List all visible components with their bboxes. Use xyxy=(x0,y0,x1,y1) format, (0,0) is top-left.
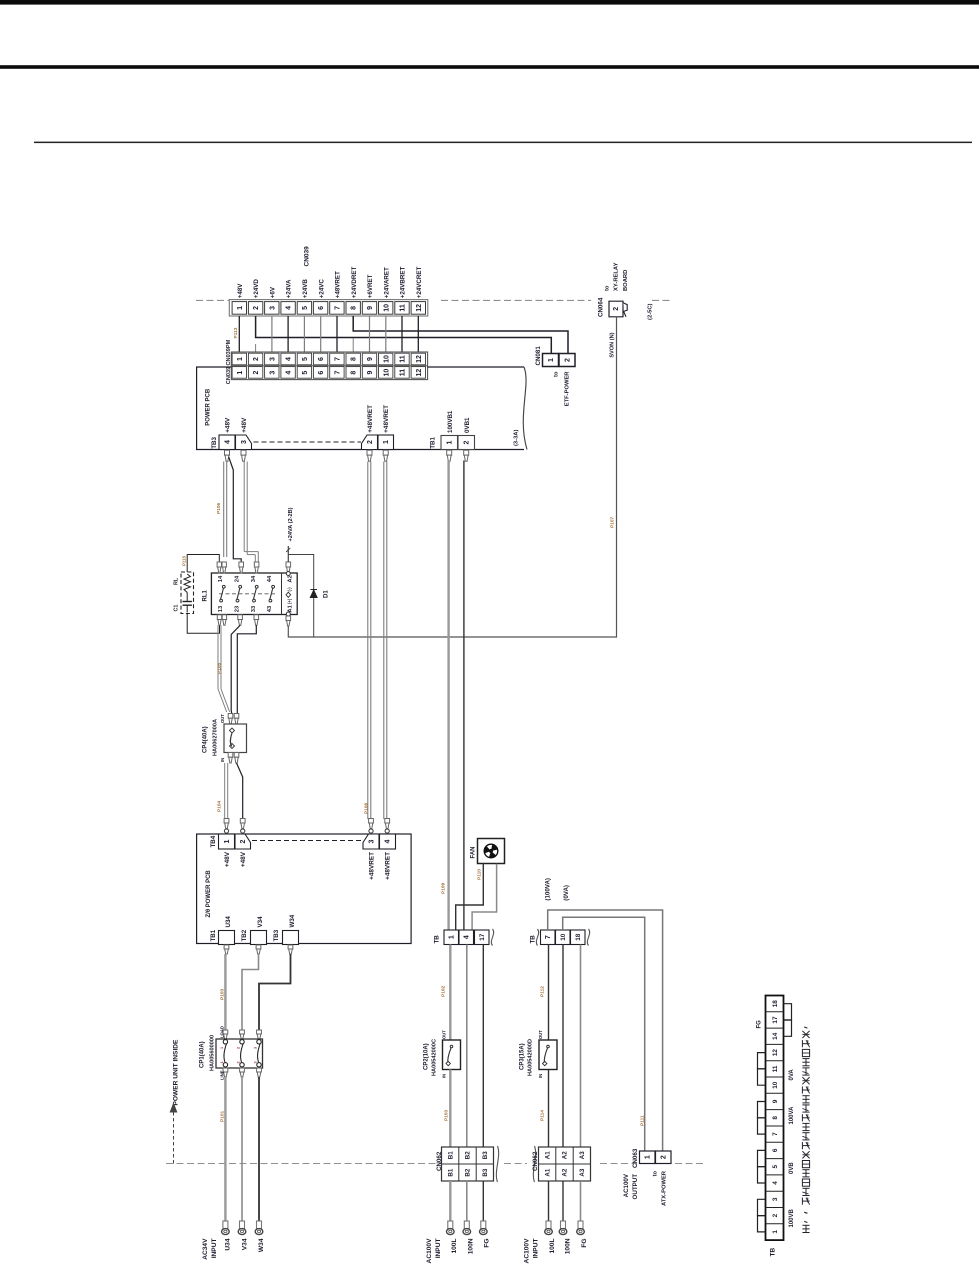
svg-text:+48V: +48V xyxy=(237,283,244,298)
svg-text:INPUT: INPUT xyxy=(533,1239,540,1259)
svg-text:HA00542000D: HA00542000D xyxy=(528,1039,534,1076)
svg-text:10: 10 xyxy=(560,933,567,941)
connector CN039 pin 8 cell xyxy=(346,367,360,379)
svg-text:24: 24 xyxy=(234,575,240,582)
svg-text:V34: V34 xyxy=(257,916,264,928)
svg-text:POWER PCB: POWER PCB xyxy=(206,388,212,426)
svg-text:AC100V: AC100V xyxy=(426,1238,433,1264)
wire RL1-33 to CP4 (black) xyxy=(237,625,256,714)
wire W34 CP1 to input terminal xyxy=(258,1077,260,1221)
wire 0VB1 TB1-2 to TB cell 4 xyxy=(463,461,465,931)
svg-text:OUT: OUT xyxy=(220,714,225,723)
TB strip jumper 2-1 (left) xyxy=(758,1216,766,1232)
svg-text:(-): (-) xyxy=(287,587,292,592)
connector CN39 pin cells 1-12 xyxy=(232,302,246,315)
wire 100N TB-4 to CN062 B2 xyxy=(466,945,468,1148)
wire FG CN062-A3 to ring terminal xyxy=(580,1181,582,1221)
svg-text:100VB: 100VB xyxy=(789,1208,795,1227)
svg-text:1: 1 xyxy=(224,839,231,843)
page rule: header bottom bar xyxy=(0,65,979,69)
svg-text:1: 1 xyxy=(237,371,244,375)
svg-text:TB: TB xyxy=(770,1248,777,1257)
connector CN081 cells 1,2 xyxy=(543,354,559,367)
breaker CP1 stubs bottom xyxy=(223,1068,228,1072)
svg-text:33: 33 xyxy=(251,605,257,612)
svg-text:12: 12 xyxy=(772,1049,779,1057)
svg-text:BOARD: BOARD xyxy=(623,270,629,291)
ring terminal FG (A) xyxy=(578,1221,583,1229)
svg-text:2: 2 xyxy=(240,839,247,843)
svg-text:6: 6 xyxy=(318,306,325,310)
breaker CP1 pole circles and blades xyxy=(223,1040,227,1044)
TB strip jumper 6-5 (left) xyxy=(758,1150,766,1166)
svg-text:ETF-POWER: ETF-POWER xyxy=(565,371,571,407)
svg-text:3: 3 xyxy=(253,1047,257,1049)
svg-text:CN062: CN062 xyxy=(436,1151,443,1171)
relay stub pin 13 (double) xyxy=(217,615,221,620)
relay stub pin 24 xyxy=(239,562,244,567)
svg-text:1: 1 xyxy=(220,1061,224,1063)
svg-text:+48VRET: +48VRET xyxy=(335,271,342,298)
svg-text:+48VRET: +48VRET xyxy=(385,852,392,880)
relay coil section divider xyxy=(281,573,283,615)
terminal TB3-2 cell (notched) xyxy=(362,435,378,450)
svg-text:+48V: +48V xyxy=(225,417,232,433)
svg-text:1: 1 xyxy=(383,440,390,444)
connector CN039PM/CN039 double row outer box xyxy=(231,352,427,380)
wire U34 Z/0-TB1 to CP1 xyxy=(224,954,226,1031)
svg-text:CP1(40A): CP1(40A) xyxy=(200,1041,206,1068)
POWER PCB board outline xyxy=(197,367,524,450)
svg-text:A2: A2 xyxy=(562,1151,569,1159)
wire branch TB3-4 to RL1 contact 24 (black) xyxy=(229,457,242,562)
svg-text:(0VA): (0VA) xyxy=(563,885,570,901)
svg-text:FG: FG xyxy=(483,1239,490,1248)
connector CN039PM pin 3 cell xyxy=(265,353,279,365)
svg-text:TB1: TB1 xyxy=(430,437,437,449)
wire CN39.7 to CN039PM.7 xyxy=(336,316,338,352)
svg-text:TB2: TB2 xyxy=(241,929,248,941)
snubber top lead to contact 14 xyxy=(187,555,219,573)
connector CN039 pin 12 cell xyxy=(411,367,425,379)
breaker CP3 switch symbol xyxy=(547,1045,550,1048)
svg-text:9: 9 xyxy=(772,1099,779,1103)
wire pair +48VRET TB3-2 to TB4-3 xyxy=(367,462,369,820)
connector CN039PM pin 8 cell xyxy=(346,353,360,365)
relay stub pin 34 xyxy=(254,562,259,567)
svg-text:FG: FG xyxy=(581,1239,588,1248)
wire 100L CN062-A1 to ring terminal xyxy=(548,1181,550,1221)
wire 100N TB-10 down to CN062 A2 xyxy=(562,945,564,1148)
relay stub coil A2 xyxy=(286,562,291,567)
wire +24VA to relay coil A2 xyxy=(287,546,289,562)
svg-text:+48V: +48V xyxy=(224,851,231,867)
wire RL1-23 to CP4 (black) xyxy=(231,625,240,714)
svg-text:0VB1: 0VB1 xyxy=(464,417,471,433)
screw circles TB4 and crimp stubs xyxy=(224,819,229,824)
svg-text:2: 2 xyxy=(772,1213,779,1217)
connector CN039 pin 1 cell xyxy=(232,367,246,379)
unit-boundary dashed line (top, y=300) xyxy=(196,299,229,301)
diode D1 flyback loop xyxy=(288,555,313,638)
wire CN39.4 to CN039PM.4 xyxy=(287,316,289,352)
ring terminal FG (B) xyxy=(481,1221,486,1229)
terminal TB4-3 cell (notched) xyxy=(363,834,379,849)
svg-text:100L: 100L xyxy=(549,1239,556,1254)
svg-text:6: 6 xyxy=(318,357,325,361)
svg-text:1: 1 xyxy=(449,935,456,939)
connector CN039 pin 11 cell xyxy=(395,367,409,379)
svg-text:+24VB: +24VB xyxy=(302,279,309,299)
terminal block TB strip outer box xyxy=(766,996,784,1241)
svg-text:A2: A2 xyxy=(562,1168,569,1176)
svg-text:100VB1: 100VB1 xyxy=(447,410,454,433)
svg-text:2: 2 xyxy=(236,1047,240,1049)
connector CN039PM pin 12 cell xyxy=(411,353,425,365)
svg-text:+24VCRET: +24VCRET xyxy=(416,267,423,299)
svg-text:4: 4 xyxy=(464,935,471,939)
svg-text:5: 5 xyxy=(302,357,309,361)
connector CN039 pin 5 cell xyxy=(297,367,311,379)
svg-text:P104: P104 xyxy=(217,800,223,812)
terminal TB1/U34 cell xyxy=(219,931,235,945)
svg-text:TB3: TB3 xyxy=(211,437,218,449)
ring terminal 100N (A) xyxy=(561,1221,566,1229)
svg-text:IN: IN xyxy=(442,1074,447,1078)
svg-text:12: 12 xyxy=(416,369,423,377)
svg-text:2: 2 xyxy=(253,371,260,375)
svg-text:IN: IN xyxy=(538,1074,543,1078)
svg-text:CP4(40A): CP4(40A) xyxy=(203,726,209,753)
wire 100L CP3 to CN062 A1 xyxy=(548,1070,550,1148)
svg-text:CN064: CN064 xyxy=(598,297,605,317)
svg-text:P108: P108 xyxy=(364,802,370,814)
TB strip jumper 12-11 (left) xyxy=(758,1053,766,1069)
svg-text:13: 13 xyxy=(218,605,224,612)
svg-text:+6VRET: +6VRET xyxy=(367,274,374,298)
svg-text:18: 18 xyxy=(772,1000,779,1008)
svg-text:14: 14 xyxy=(218,575,224,582)
svg-text:6: 6 xyxy=(772,1148,779,1152)
wire 100L TB-7 down to CP3 xyxy=(548,945,550,1041)
svg-text:3: 3 xyxy=(269,357,276,361)
FAN rotor symbol xyxy=(484,844,498,858)
wire CN39.12 to CN039PM.12 xyxy=(417,316,419,352)
svg-text:to: to xyxy=(653,1171,659,1177)
svg-text:0VB: 0VB xyxy=(789,1162,795,1174)
wire crimp stub below U34 terminal xyxy=(224,945,229,949)
wire CN39.10 to CN039PM.10 xyxy=(385,316,387,352)
breaker CP2 switch symbol xyxy=(450,1045,453,1048)
wire CN39.11 to CN039PM.11 xyxy=(401,316,403,352)
connector CN062 (B) break squiggle xyxy=(496,1146,498,1182)
svg-text:+48V: +48V xyxy=(240,851,247,867)
svg-text:1: 1 xyxy=(548,358,555,362)
svg-text:HA00542000C: HA00542000C xyxy=(432,1039,438,1076)
svg-text:CN039PM: CN039PM xyxy=(226,339,232,365)
svg-text:P101: P101 xyxy=(220,1110,226,1122)
terminal TB4-4 cell xyxy=(380,834,396,849)
wire FG CN062-B3 to ring terminal xyxy=(482,1181,484,1221)
svg-text:1: 1 xyxy=(220,1047,224,1049)
capacitor C1 plates xyxy=(186,593,188,602)
wire 100VB1 TB1-1 to TB cell 1 xyxy=(447,461,449,931)
connector CN039PM pin 6 cell xyxy=(313,353,327,365)
svg-text:A3: A3 xyxy=(579,1168,586,1176)
svg-text:SVON (N): SVON (N) xyxy=(610,332,616,357)
svg-text:9: 9 xyxy=(367,371,374,375)
svg-text:B1: B1 xyxy=(447,1151,454,1159)
snubber dashed enclosure xyxy=(181,572,194,614)
svg-text:P115: P115 xyxy=(182,555,187,566)
svg-text:B3: B3 xyxy=(482,1168,489,1176)
TB strip jumper 5-4 (left) xyxy=(758,1167,766,1183)
wire 100N CN062-B2 to ring terminal xyxy=(466,1181,468,1221)
wire V34 CP1 to input terminal xyxy=(241,1077,243,1221)
svg-text:9: 9 xyxy=(367,306,374,310)
svg-text:7: 7 xyxy=(335,371,342,375)
svg-text:4: 4 xyxy=(225,440,232,444)
svg-text:7: 7 xyxy=(335,306,342,310)
connector CN063 cells 1,2 xyxy=(640,1151,656,1164)
svg-text:U34: U34 xyxy=(225,1238,232,1250)
svg-text:5: 5 xyxy=(302,371,309,375)
svg-text:CN063: CN063 xyxy=(632,1148,639,1168)
svg-text:4: 4 xyxy=(772,1181,779,1185)
svg-text:7: 7 xyxy=(335,357,342,361)
svg-text:2: 2 xyxy=(253,306,260,310)
terminal TB1-1 cell xyxy=(441,436,458,450)
relay RL1 body xyxy=(211,573,297,615)
svg-text:2: 2 xyxy=(613,307,620,311)
TB break squiggle (right of 18) xyxy=(587,929,589,946)
svg-text:17: 17 xyxy=(772,1016,779,1024)
note: jumper connections of terminal block TB (Japanese, drawn as strokes) xyxy=(802,1224,809,1226)
svg-text:CN039: CN039 xyxy=(226,367,232,384)
terminal TB3-3 cell (notched) xyxy=(236,435,252,450)
svg-text:FG: FG xyxy=(757,1020,763,1029)
svg-text:4: 4 xyxy=(286,357,293,361)
breaker CP2 body xyxy=(443,1040,461,1070)
connector CN039PM pin 10 cell xyxy=(379,353,393,365)
svg-text:100N: 100N xyxy=(467,1238,474,1254)
svg-text:(100VA): (100VA) xyxy=(545,878,552,901)
svg-text:43: 43 xyxy=(267,605,273,612)
connector CN062 (A) break squiggle xyxy=(533,1146,535,1182)
connector CN039PM pin 9 cell xyxy=(362,353,376,365)
svg-text:18: 18 xyxy=(575,933,582,941)
ring terminal V34 xyxy=(240,1221,245,1229)
connector CN039PM pin 5 cell xyxy=(297,353,311,365)
svg-text:2: 2 xyxy=(464,440,471,444)
terminal TB3-4 cell xyxy=(219,435,235,450)
svg-text:(3-3A): (3-3A) xyxy=(514,430,520,446)
svg-text:10: 10 xyxy=(383,369,390,377)
TB strip jumper 3-2 (left) xyxy=(758,1199,766,1215)
wire CP4 to TB4-2 (black) xyxy=(237,763,243,819)
connector CN39 outer box xyxy=(229,300,427,316)
relay stub coil A1 xyxy=(286,612,290,616)
svg-text:P103: P103 xyxy=(220,988,226,1000)
svg-text:0VA: 0VA xyxy=(789,1069,795,1081)
svg-text:3: 3 xyxy=(269,371,276,375)
svg-text:10: 10 xyxy=(383,304,390,312)
resistor RL (zigzag) xyxy=(184,574,190,593)
svg-text:7: 7 xyxy=(545,935,552,939)
svg-text:11: 11 xyxy=(400,369,407,377)
svg-text:+48V: +48V xyxy=(241,417,248,433)
svg-text:P114: P114 xyxy=(540,1110,546,1121)
wire crimp stub below TB1-1 xyxy=(447,450,452,455)
svg-text:11: 11 xyxy=(772,1065,779,1072)
connector CN039PM pin 7 cell xyxy=(330,353,344,365)
svg-text:2: 2 xyxy=(253,357,260,361)
svg-text:P112: P112 xyxy=(540,986,546,997)
terminal TB3/W34 cell xyxy=(283,931,299,945)
svg-text:7: 7 xyxy=(772,1132,779,1136)
svg-text:CN062: CN062 xyxy=(532,1151,539,1171)
breaker CP4 stub bottom-right xyxy=(234,753,239,758)
snubber bottom lead to contact 13 xyxy=(187,614,219,634)
svg-text:+48VRET: +48VRET xyxy=(383,405,390,433)
svg-text:AC100V: AC100V xyxy=(524,1238,531,1264)
ring terminal W34 xyxy=(257,1221,262,1229)
svg-text:+24VC: +24VC xyxy=(318,279,325,299)
svg-text:POWER UNIT INSIDE: POWER UNIT INSIDE xyxy=(173,1039,180,1106)
svg-text:+48VRET: +48VRET xyxy=(367,405,374,433)
svg-text:3: 3 xyxy=(241,440,248,444)
terminal TB1-2 cell xyxy=(458,436,475,450)
svg-text:RL: RL xyxy=(174,577,180,585)
breaker CP4 stub bottom-left xyxy=(228,753,233,758)
svg-text:8: 8 xyxy=(351,357,358,361)
svg-text:B3: B3 xyxy=(482,1151,489,1159)
wire 100VA TB-7 to CN063.2 xyxy=(548,910,663,1151)
svg-text:to: to xyxy=(605,285,611,291)
svg-text:44: 44 xyxy=(267,575,273,582)
svg-text:+24VARET: +24VARET xyxy=(383,267,390,298)
connector CN039 pin 3 cell xyxy=(265,367,279,379)
breaker CP4 switch symbol xyxy=(230,728,235,733)
breaker CP3 body xyxy=(539,1040,557,1070)
svg-text:OUT: OUT xyxy=(538,1030,543,1039)
svg-text:10: 10 xyxy=(383,355,390,363)
jumper dashed link TB4 2-3 xyxy=(252,840,363,842)
connector CN039 pin 2 cell xyxy=(248,367,262,379)
svg-text:+48VRET: +48VRET xyxy=(369,852,376,880)
wire crimp stub below TB3-3 xyxy=(241,450,246,455)
wire FG TB-17 to CN062 B3 xyxy=(482,945,484,1148)
wire pair CP4 to TB4-1 xyxy=(224,763,226,819)
svg-text:4: 4 xyxy=(286,371,293,375)
svg-text:A2: A2 xyxy=(288,575,294,582)
svg-text:TB3: TB3 xyxy=(273,929,280,941)
wire CN39.2 (+24VD) to CN081.1 xyxy=(256,316,552,354)
svg-text:P103: P103 xyxy=(444,1109,450,1121)
svg-text:B1: B1 xyxy=(447,1168,454,1176)
wire FAN hot to TB cell 1 xyxy=(456,864,484,930)
ring terminal 100N (B) xyxy=(464,1221,469,1229)
FAN box xyxy=(478,839,505,864)
terminal TB4-1 cell xyxy=(219,834,235,849)
svg-text:TB4: TB4 xyxy=(210,835,217,847)
svg-text:1: 1 xyxy=(447,440,454,444)
svg-text:6: 6 xyxy=(318,371,325,375)
svg-text:1: 1 xyxy=(237,306,244,310)
svg-text:2: 2 xyxy=(661,1155,668,1159)
svg-text:HA00627000A: HA00627000A xyxy=(213,719,219,756)
svg-text:11: 11 xyxy=(400,355,407,363)
svg-text:3: 3 xyxy=(772,1197,779,1201)
page rule: top thick bar xyxy=(0,0,979,5)
svg-text:100L: 100L xyxy=(451,1239,458,1254)
connector CN039 pin 10 cell xyxy=(379,367,393,379)
connector CN064 cell 2 (notched) xyxy=(609,301,623,317)
ring terminal 100L (B) xyxy=(448,1221,453,1229)
svg-text:P111: P111 xyxy=(640,1115,646,1126)
connector CN039PM pin 11 cell xyxy=(395,353,409,365)
svg-text:A1: A1 xyxy=(288,604,294,612)
svg-text:A1: A1 xyxy=(544,1168,551,1176)
relay stub pin 23 xyxy=(238,615,243,620)
wire pair +48VRET TB3-1 to TB4-4 xyxy=(383,462,385,820)
TB strip jumper 11-10 (left) xyxy=(758,1069,766,1085)
wire stub CN039PM.2 xyxy=(255,344,257,352)
svg-text:11: 11 xyxy=(400,304,407,312)
wire CN39.5 to CN039PM.5 xyxy=(303,316,305,352)
connector CN039 pin 6 cell xyxy=(313,367,327,379)
wire 100L TB-1 to CP2 xyxy=(449,945,451,1041)
ring terminal U34 xyxy=(223,1221,228,1229)
svg-text:+24VD: +24VD xyxy=(253,279,260,299)
svg-text:23: 23 xyxy=(234,605,240,612)
wire 100L CP2 to CN062 B1 xyxy=(449,1070,451,1148)
connector CN039 pin 4 cell xyxy=(281,367,295,379)
svg-text:FAN: FAN xyxy=(471,847,477,859)
svg-text:+24VDRET: +24VDRET xyxy=(351,267,358,299)
svg-text:P105: P105 xyxy=(217,662,223,674)
svg-text:+24VA (2-2B): +24VA (2-2B) xyxy=(288,507,294,541)
page rule: thin sub-header line xyxy=(34,142,972,144)
svg-text:OUTPUT: OUTPUT xyxy=(632,1174,639,1200)
svg-text:V34: V34 xyxy=(242,1238,249,1250)
svg-text:INPUT: INPUT xyxy=(435,1239,442,1259)
wire U34 CP1 to input terminal xyxy=(224,1077,226,1221)
connector CN039 pin 7 cell xyxy=(330,367,344,379)
svg-text:Z/θ POWER PCB: Z/θ POWER PCB xyxy=(206,870,212,918)
svg-text:LINE: LINE xyxy=(220,1070,225,1080)
TB strip jumper 8-7 (left) xyxy=(758,1118,766,1134)
relay stub pin 14 (double) xyxy=(217,562,221,567)
POWER PCB broken right edge xyxy=(523,367,527,450)
svg-text:2: 2 xyxy=(236,1061,240,1063)
wire crimp stub below W34 terminal xyxy=(288,945,293,949)
jumper dashed link TB3 3-2 xyxy=(254,441,362,443)
svg-text:B2: B2 xyxy=(465,1151,472,1159)
svg-text:5: 5 xyxy=(302,306,309,310)
wire SVON CN064.2 to relay coil A1 xyxy=(288,317,616,637)
svg-text:AC34V: AC34V xyxy=(202,1238,209,1260)
svg-text:8: 8 xyxy=(351,306,358,310)
svg-text:4: 4 xyxy=(286,306,293,310)
connector CN039PM pin 1 cell xyxy=(232,353,246,365)
breaker CP4 stub top-left xyxy=(228,714,233,719)
svg-text:1: 1 xyxy=(645,1155,652,1159)
ring terminal 100L (A) xyxy=(546,1221,551,1229)
terminal TB2/V34 cell xyxy=(251,931,267,945)
svg-text:+24VBRET: +24VBRET xyxy=(400,267,407,299)
svg-text:OUT: OUT xyxy=(442,1030,447,1039)
